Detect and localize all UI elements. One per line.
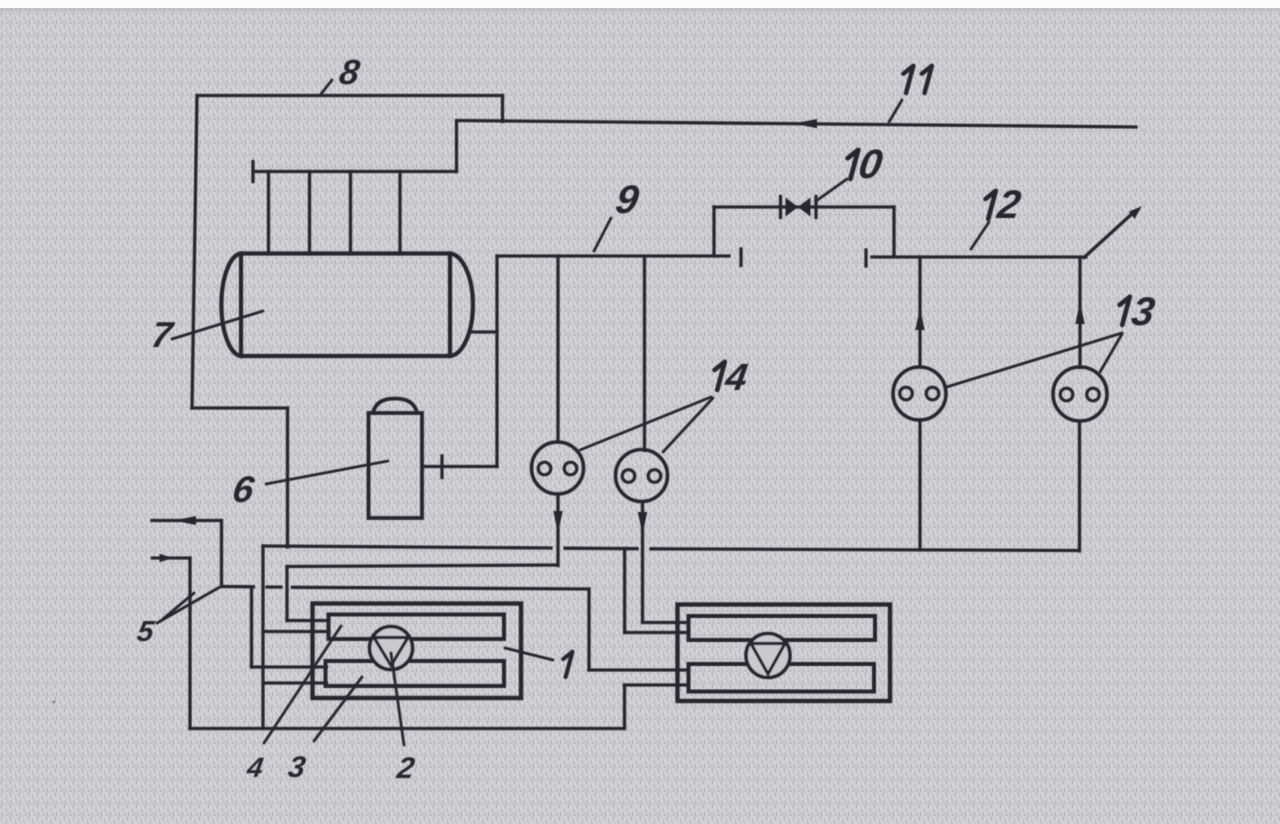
wire: long drop from H1 corner to bottom line [261,546,264,729]
label 1 [563,652,572,677]
arrowhead of outlet 12 [1129,206,1142,219]
condenser loop 8: top line [197,94,503,97]
wire: header H3 segment b [267,585,281,588]
condenser comb bar [253,170,457,173]
leader for label 1 [505,648,553,660]
condenser comb tube 4 [398,172,401,255]
leader for label 12 [971,222,989,249]
wire: line 9 right segment [872,255,1086,258]
condenser comb end tick [251,162,254,182]
label 13 [1120,297,1130,325]
wire: H2 left drop [285,567,288,621]
leader for label 6 [266,461,388,484]
sight glass 13a lower stem [918,420,921,550]
wire: header H1 segment c [651,549,1078,551]
arrowhead 5b pointing right [160,554,174,562]
top page edge white strip [0,0,1280,8]
receiver tank 7 right cap [450,254,473,357]
sight glass 14b eyes [622,470,635,483]
flange tick right of valve gap [864,250,867,266]
wire: step from left edge to inner drop [192,406,288,409]
down arrow on 14b stem [638,512,647,534]
wire: riser from comb bar to line 11 [455,121,458,172]
wire: entry to left coil top tube lower [263,630,329,633]
down arrow on 14a stem [553,511,562,533]
filter drier 6 body [369,399,423,519]
pump 2 body [370,627,413,670]
leader for label 11 [889,100,902,122]
wire: upper exit line with arrow 5a [152,519,222,522]
wire: line 9 left segment [497,254,729,257]
evaporator 1 (left) outer box [313,604,522,699]
leaders for label 13 [945,333,1122,388]
valve 10 left tick [779,197,782,218]
condenser comb tube 1 [267,172,270,255]
label 12 [986,191,996,219]
sight glass 13b eyes [1060,388,1073,401]
leader for label 3 [314,677,362,741]
arrowhead on line 11 pointing left [794,119,817,128]
sight glass 14a eyes [538,462,551,475]
sight glass 13b lower stem [1078,421,1081,551]
leader lines [157,80,1122,745]
sight glass 14a body [532,442,584,494]
wire: filter outlet stub [422,465,497,468]
right pump body [746,634,790,678]
sight glass 14b lower stem [641,502,644,623]
sight glass 13b upper stem [1078,258,1081,368]
leader for label 2 [391,653,404,745]
up arrow on 13b stem [1075,302,1084,324]
wire: drop from exit 5a to H3 [220,521,223,587]
leaders for label 14 [580,397,711,450]
wire: line 11 long suction line [457,121,1136,128]
wire: lower exit line with arrow 5b [153,556,191,559]
wire: drop from H1 to right coil top tube lower [623,549,626,633]
wire: drop from H3 to left coil bottom tube upper [250,588,253,667]
wire: header H1 segment b [565,547,637,551]
label 14 [715,362,725,390]
arrowhead 5a pointing left [174,516,196,525]
wire: tank outlet stub [472,330,497,333]
wire: drop to header H1 [286,408,289,547]
wire: bottom line riser to right coil [623,685,626,729]
sight glass 14a lower stem [556,494,559,566]
leader for label 4 [264,626,341,743]
leader for label 7 [172,311,263,339]
condenser loop 8: left edge wire [192,96,197,409]
wire: entry to right coil bottom tube upper [589,668,689,671]
wire: header H3 segment c [293,587,590,589]
leader for label 10 [816,179,847,201]
condenser loop 8: right edge drop to line 11 [501,96,504,122]
valve 10 right tick [814,197,817,218]
wire: bypass right drop [892,207,895,257]
wire: bottom return line [190,727,625,730]
sight glass 14b body [616,450,668,502]
wire: diagonal outlet 12 [1084,212,1134,258]
wire: entry to left coil bottom tube lower [264,681,327,684]
wire: bypass left riser [712,207,715,256]
sight glass 13a upper stem [918,257,921,367]
wire: left outer drop to bottom line [188,558,191,729]
valve 10 bowtie [786,198,799,217]
sight glass 13b body [1053,367,1107,421]
condenser comb tube 3 [349,172,352,255]
sight glass 13a body [893,367,946,420]
wire: entry to right coil top tube lower [625,631,689,634]
leaders for label 5 [157,588,219,624]
paper speck [52,700,55,703]
wire: header H3 segment a [222,585,254,589]
condenser comb tube 2 [308,172,311,255]
sight glass 13a eyes [900,387,913,400]
receiver tank 7 body [221,254,473,357]
label 10 [848,150,859,179]
wire: header H1 segment a [263,546,551,548]
label 11 [903,66,913,93]
leader for label 8 [321,80,332,94]
wire: entry to left coil bottom tube upper [252,665,327,668]
leader for label 9 [594,218,611,251]
right coil top tube [689,616,876,640]
left coil bottom tube 3 [326,661,505,686]
wire: liquid drop from line 9 to filter [495,256,498,467]
right coil bottom tube [689,664,875,692]
wire: bypass top run [714,205,894,208]
up arrow on 13a stem [915,308,924,330]
flange tick on filter stub [440,456,443,478]
wire: entry to right coil top tube upper [643,621,689,624]
receiver tank 7 left cap [221,254,241,357]
right pump triangle [751,644,785,675]
pump 2 triangle [374,638,408,666]
left coil top tube 4 [329,615,505,640]
wire: header H2 [287,565,558,567]
sight glass 14a upper stem [556,256,559,442]
wire: entry to right coil bottom tube lower [625,683,689,686]
filter drier 6 dome [373,399,417,414]
wire: entry to left coil top tube upper [287,619,329,622]
wire: H3 drop between boxes [587,589,590,670]
flange tick left of valve gap [739,249,742,266]
sight glass 14b upper stem [643,257,646,451]
evaporator (right) outer box [678,605,891,702]
